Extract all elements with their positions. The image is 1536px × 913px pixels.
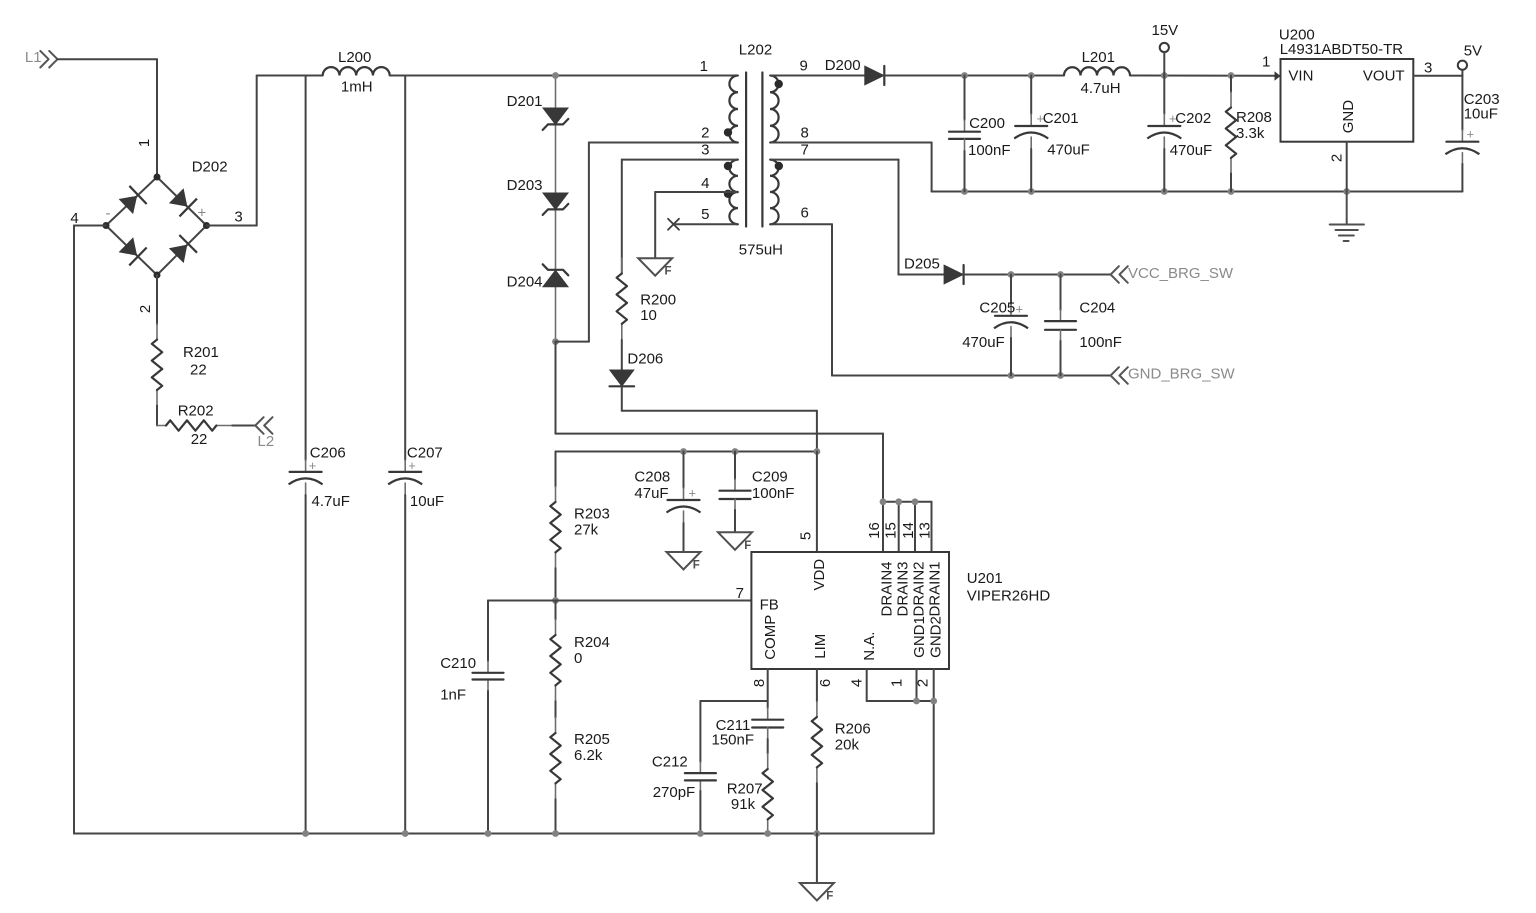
svg-text:R204: R204 [574, 634, 610, 651]
svg-text:15V: 15V [1152, 22, 1179, 39]
svg-text:C209: C209 [752, 469, 788, 486]
svg-text:R201: R201 [183, 344, 219, 361]
svg-text:100nF: 100nF [752, 485, 795, 502]
wire [57, 59, 157, 177]
zener D203 [543, 193, 569, 215]
svg-text:L2: L2 [258, 433, 275, 450]
bridge diode top-left [117, 186, 146, 216]
svg-text:R203: R203 [574, 505, 610, 522]
svg-text:+: + [309, 458, 317, 473]
svg-text:4.7uH: 4.7uH [1081, 80, 1121, 97]
svg-text:15: 15 [883, 522, 900, 539]
wire drain bus [883, 502, 932, 552]
svg-text:470uF: 470uF [1047, 142, 1090, 159]
svg-text:270pF: 270pF [653, 784, 696, 801]
label C210 [440, 655, 476, 703]
label 575uH [739, 241, 783, 258]
svg-text:4.7uF: 4.7uF [312, 493, 350, 510]
diode D205 [944, 265, 964, 284]
svg-text:L201: L201 [1082, 49, 1115, 66]
svg-text:1: 1 [889, 679, 906, 687]
junction dot [552, 72, 559, 79]
label C206 [309, 444, 350, 510]
svg-text:C201: C201 [1043, 110, 1079, 127]
capacitor C205 [994, 275, 1028, 376]
node dots D202 [103, 174, 211, 279]
wire D206 to VDD rail [622, 387, 817, 452]
svg-text:47uF: 47uF [634, 485, 668, 502]
svg-text:3.3k: 3.3k [1236, 125, 1265, 142]
svg-text:470uF: 470uF [962, 334, 1005, 351]
U201 pin names [760, 559, 945, 661]
svg-text:6.2k: 6.2k [574, 747, 603, 764]
svg-text:16: 16 [866, 522, 883, 539]
svg-text:+: + [408, 458, 416, 473]
svg-text:C202: C202 [1175, 110, 1211, 127]
IC U201 box [751, 552, 949, 669]
svg-text:+: + [1467, 127, 1475, 142]
capacitor C208 [667, 452, 701, 552]
svg-text:10uF: 10uF [410, 493, 444, 510]
svg-text:91k: 91k [731, 796, 756, 813]
svg-text:+: + [689, 486, 697, 501]
label R204 [574, 634, 610, 667]
label C205 [962, 300, 1023, 351]
label U200 [1279, 27, 1403, 59]
svg-text:R208: R208 [1236, 109, 1272, 126]
svg-text:C212: C212 [652, 754, 688, 771]
svg-text:D203: D203 [507, 177, 543, 194]
resistor R207 [763, 754, 773, 835]
svg-text:150nF: 150nF [712, 732, 755, 749]
wire VDD pin [816, 452, 818, 553]
connector GND_BRG_SW [1111, 366, 1236, 384]
svg-text:0: 0 [574, 650, 582, 667]
svg-text:1mH: 1mH [341, 78, 373, 95]
svg-text:470uF: 470uF [1170, 142, 1213, 159]
ground symbol bottom [800, 883, 834, 903]
svg-text:-: - [106, 205, 111, 222]
label D203 [507, 177, 543, 194]
svg-text:L1: L1 [25, 49, 42, 66]
svg-text:U201: U201 [967, 570, 1003, 587]
label R201 [183, 344, 219, 379]
wire NA pin4 [867, 669, 934, 701]
resistor R208 [1226, 76, 1236, 192]
connector L2 [255, 417, 274, 450]
label D201 [507, 93, 543, 110]
svg-text:20k: 20k [835, 736, 860, 753]
label C208 [634, 469, 696, 502]
junction dots bottom rail [302, 830, 820, 837]
inductor L200 [323, 67, 390, 75]
wire pin4 [655, 192, 738, 258]
junction dot FB [552, 597, 559, 604]
wire pin8 to bottom rail [770, 143, 1462, 192]
svg-text:D204: D204 [507, 274, 543, 291]
wire pin3 to R200 [622, 160, 738, 274]
svg-text:4: 4 [70, 210, 78, 227]
svg-text:5: 5 [798, 532, 815, 540]
svg-text:13: 13 [917, 522, 934, 539]
junction dots drain bus [880, 498, 919, 505]
capacitor C210 [473, 673, 504, 680]
svg-text:C205: C205 [979, 300, 1015, 317]
svg-text:2: 2 [1329, 154, 1346, 162]
capacitor C211 [752, 720, 783, 728]
junction dots VDD rail [680, 448, 820, 455]
wire bridge left to left rail [74, 226, 106, 834]
svg-text:22: 22 [190, 362, 207, 379]
svg-text:COMP: COMP [762, 615, 779, 660]
wire C207 branch [404, 76, 406, 834]
wire U200 GND pin [1346, 142, 1348, 192]
svg-text:GND1: GND1 [911, 616, 928, 658]
svg-text:7: 7 [736, 585, 744, 602]
wire pin7 to D205 [770, 160, 944, 275]
label D205 [904, 256, 940, 273]
label R206 [835, 720, 871, 753]
resistor R204 [550, 601, 560, 718]
svg-text:GND_BRG_SW: GND_BRG_SW [1128, 366, 1236, 383]
capacitor C209 [720, 452, 751, 533]
op-amp U200 box [1281, 59, 1414, 142]
svg-text:VIN: VIN [1288, 68, 1313, 85]
label C204 [1079, 300, 1122, 351]
svg-text:7: 7 [801, 141, 809, 158]
resistor R206 [812, 702, 822, 834]
svg-text:VCC_BRG_SW: VCC_BRG_SW [1128, 265, 1234, 282]
wire D204 to pin2 riser [556, 143, 739, 342]
transformer aux winding 4-5 [729, 192, 738, 224]
label D206 [627, 351, 663, 368]
svg-text:14: 14 [900, 522, 917, 539]
svg-text:R207: R207 [727, 781, 763, 798]
label U201 [967, 570, 1051, 605]
label pin5 VDD [798, 532, 815, 540]
transformer pin labels left [700, 58, 710, 223]
label C207 [407, 444, 444, 510]
zener D204 [543, 264, 569, 286]
label R200 [640, 291, 676, 323]
svg-text:F: F [693, 560, 700, 572]
junction dots GND pins [913, 698, 937, 705]
svg-text:8: 8 [751, 679, 768, 687]
svg-text:5: 5 [701, 206, 709, 223]
U200 pin labels [1262, 54, 1432, 163]
resistor R201 [152, 275, 162, 426]
label D204 [507, 274, 543, 291]
drain pin labels [866, 522, 934, 539]
wire C210 branch [488, 601, 556, 834]
svg-text:575uH: 575uH [739, 241, 783, 258]
wire C212 branch [700, 701, 767, 834]
svg-text:L200: L200 [338, 49, 371, 66]
label R207 [727, 781, 763, 814]
svg-text:4: 4 [701, 175, 709, 192]
svg-text:100nF: 100nF [968, 142, 1011, 159]
label pin7 FB [736, 585, 744, 602]
wire GND1 pin [916, 669, 918, 701]
svg-text:FB: FB [760, 596, 779, 613]
capacitor C206 [289, 472, 323, 485]
svg-text:2: 2 [701, 124, 709, 141]
wire bottom rail [74, 833, 934, 835]
label C201 [1037, 110, 1090, 159]
svg-text:C200: C200 [969, 115, 1005, 132]
wire pin9 to D200 [770, 75, 865, 77]
earth ground U200 [1330, 192, 1364, 242]
svg-text:1nF: 1nF [440, 687, 466, 704]
svg-text:F: F [744, 540, 751, 552]
label L201 [1081, 49, 1121, 97]
connector VCC_BRG_SW [1111, 265, 1234, 283]
U201 bottom pin labels [751, 679, 932, 687]
svg-text:5V: 5V [1464, 43, 1482, 60]
capacitor C207 [388, 472, 422, 485]
svg-text:3: 3 [701, 141, 709, 158]
wire pin5 stub [676, 223, 738, 225]
svg-text:R206: R206 [835, 720, 871, 737]
svg-text:D200: D200 [825, 57, 861, 74]
wire bridge right up to top rail [207, 76, 323, 226]
phase dots [724, 80, 783, 198]
capacitor C203 [1445, 76, 1479, 192]
wire LIM pin [816, 669, 818, 702]
svg-text:D206: D206 [627, 351, 663, 368]
svg-text:10uF: 10uF [1464, 106, 1498, 123]
svg-text:9: 9 [800, 58, 808, 75]
inductor L201 [1064, 67, 1130, 75]
wire VOUT to 5V [1413, 70, 1462, 76]
svg-text:GND2: GND2 [927, 616, 944, 658]
label D200 [825, 57, 861, 74]
label R205 [574, 731, 610, 764]
wire pin6 to GND_BRG_SW [770, 224, 1111, 375]
svg-text:N.A.: N.A. [861, 632, 878, 661]
svg-text:3: 3 [234, 209, 242, 226]
svg-text:L202: L202 [739, 42, 772, 59]
svg-text:6: 6 [817, 679, 834, 687]
power flag 15V [1160, 43, 1169, 76]
svg-text:LIM: LIM [812, 634, 829, 659]
label D202 [192, 158, 228, 175]
label C209 [752, 469, 795, 502]
transformer pin labels right [800, 58, 809, 222]
transformer aux winding 3-4 [729, 160, 738, 192]
svg-text:D201: D201 [507, 93, 543, 110]
svg-text:2: 2 [137, 305, 154, 313]
bridge diode bottom-right [167, 235, 197, 265]
label C211 [712, 717, 755, 749]
svg-text:+: + [1016, 302, 1024, 317]
resistor R203 [550, 452, 560, 601]
no-connect X pin5 [668, 219, 679, 230]
junction dots GND [1008, 372, 1064, 379]
svg-text:VDD: VDD [811, 559, 828, 591]
svg-text:F: F [665, 266, 672, 278]
svg-text:1: 1 [1262, 54, 1270, 71]
svg-text:DRAIN2: DRAIN2 [910, 561, 927, 616]
label C212 [652, 754, 695, 801]
svg-text:DRAIN3: DRAIN3 [894, 561, 911, 616]
svg-text:R202: R202 [178, 403, 214, 420]
resistor R202 [157, 420, 255, 430]
wire top rail to transformer [390, 75, 738, 77]
capacitor C204 [1045, 275, 1076, 376]
ground pin4 [638, 258, 672, 278]
connector L1 [25, 49, 58, 67]
label 15V [1152, 22, 1179, 39]
ground C208 [667, 552, 701, 572]
wire D204 junction to drain bus [556, 342, 884, 502]
label R202 [178, 403, 214, 448]
label L200 [338, 49, 373, 95]
transformer primary winding 1-2 [729, 76, 738, 143]
wire C211 to R207 [767, 728, 769, 754]
svg-text:6: 6 [801, 205, 809, 222]
bridge pin labels [70, 205, 242, 314]
label R208 [1236, 109, 1272, 142]
resistor R205 [550, 718, 560, 834]
transformer secondary winding 7-6 [770, 160, 779, 225]
svg-text:8: 8 [801, 124, 809, 141]
svg-text:D205: D205 [904, 256, 940, 273]
resistor R200 [617, 258, 627, 370]
capacitor C200 [949, 76, 980, 192]
label C200 [968, 115, 1011, 159]
svg-text:L4931ABDT50-TR: L4931ABDT50-TR [1280, 41, 1404, 58]
label C202 [1169, 110, 1212, 159]
svg-text:C208: C208 [634, 469, 670, 486]
label R203 [574, 505, 610, 538]
transformer core [746, 73, 762, 227]
junction dots VCC [1008, 271, 1064, 278]
svg-text:VOUT: VOUT [1363, 68, 1405, 85]
svg-text:100nF: 100nF [1079, 334, 1122, 351]
wire COMP pin [767, 669, 769, 719]
svg-text:3: 3 [1424, 60, 1432, 77]
ground C209 [718, 532, 752, 552]
wire FB [556, 600, 752, 602]
svg-text:C204: C204 [1079, 300, 1115, 317]
bridge rectifier D202 diamond [106, 177, 207, 275]
label C203 [1464, 91, 1500, 141]
svg-text:1: 1 [136, 139, 153, 147]
U200 pin1 arrow [1275, 71, 1281, 80]
transformer secondary winding 9-8 [770, 76, 779, 143]
power flag 5V [1458, 61, 1467, 70]
svg-text:27k: 27k [574, 522, 599, 539]
diode D200 [865, 66, 885, 85]
junction dots bottom rail right [961, 188, 1350, 195]
zener D201 [543, 108, 569, 130]
svg-text:10: 10 [640, 307, 657, 324]
svg-text:R205: R205 [574, 731, 610, 748]
svg-text:DRAIN1: DRAIN1 [927, 561, 944, 616]
svg-text:1: 1 [700, 58, 708, 75]
bridge diode top-right [167, 187, 196, 217]
wire VCC_BRG_SW [964, 274, 1111, 276]
capacitor C202 [1147, 76, 1181, 192]
svg-text:D202: D202 [192, 158, 228, 175]
wire D200 to U200 [885, 75, 1275, 77]
ground bottom [816, 834, 818, 884]
wire diode chain [555, 76, 557, 342]
junction dot [552, 338, 559, 345]
svg-text:F: F [826, 891, 833, 903]
svg-text:C210: C210 [440, 655, 476, 672]
svg-text:GND: GND [1340, 100, 1357, 134]
capacitor C201 [1014, 76, 1048, 192]
svg-text:DRAIN4: DRAIN4 [879, 561, 896, 616]
svg-text:4: 4 [849, 679, 866, 687]
pin 1 label [136, 139, 153, 147]
svg-text:22: 22 [191, 431, 208, 448]
label 5V [1464, 43, 1482, 60]
label L202 [739, 42, 772, 59]
capacitor C212 [685, 773, 716, 780]
bridge diode bottom-left [117, 236, 146, 266]
svg-text:VIPER26HD: VIPER26HD [967, 588, 1051, 605]
wire GND2 pin [933, 669, 935, 834]
wire VDD rail [556, 451, 817, 453]
diode D206 [610, 370, 635, 386]
wire C206 branch [305, 76, 307, 834]
U200 pin names [1288, 68, 1404, 134]
junction dots top rail [961, 72, 1234, 79]
svg-text:+: + [198, 205, 207, 222]
